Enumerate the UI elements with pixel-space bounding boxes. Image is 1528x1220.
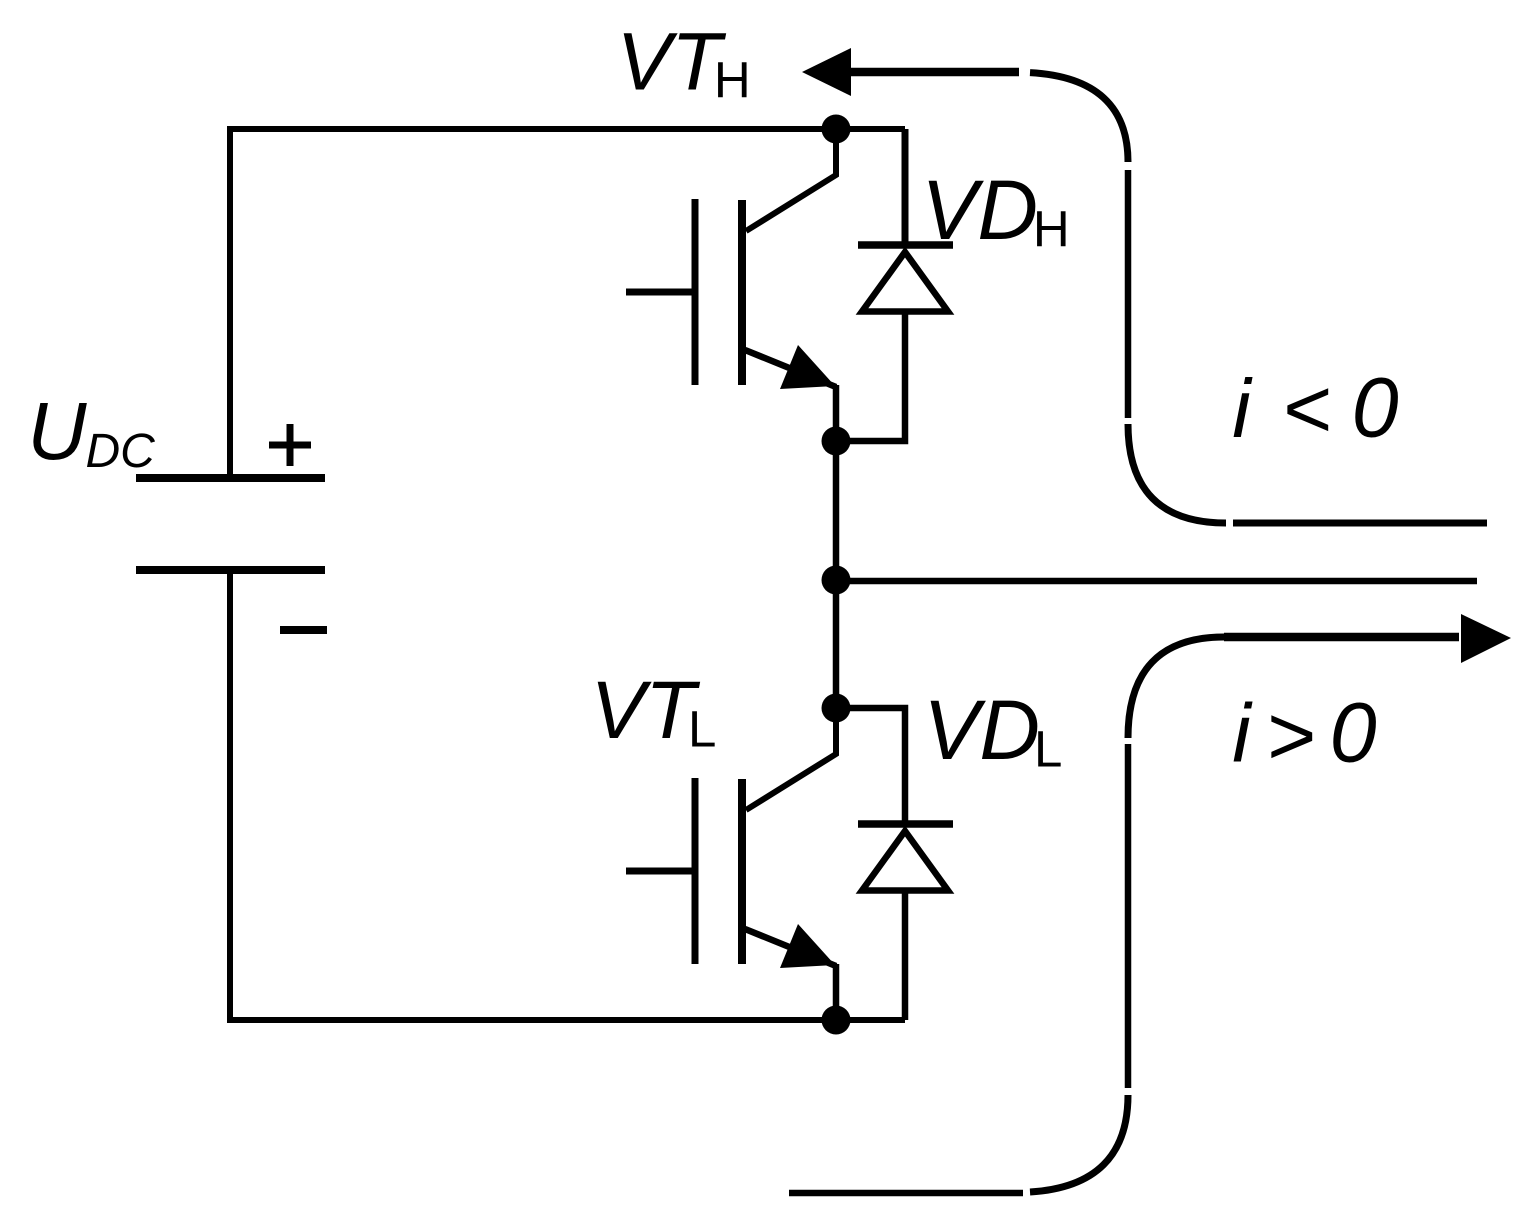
node C (output node) (822, 566, 851, 595)
svg-text:i: i (1232, 362, 1253, 455)
svg-text:>: > (1266, 689, 1315, 783)
svg-text:i: i (1232, 687, 1253, 780)
capacitor U_DC bottom plate (-) (136, 566, 325, 574)
current path i<0: bottom rounded corner (1128, 424, 1226, 523)
svg-text:0: 0 (1352, 361, 1399, 455)
node D (VT_L collector / VD_L cathode) (822, 694, 851, 723)
transistor VT_H channel bar (738, 200, 746, 385)
current path i<0: top rounded corner (1030, 73, 1128, 162)
svg-text:L: L (1034, 721, 1062, 778)
transistor VT_L channel bar (738, 779, 746, 964)
current path i<0: shaft (849, 68, 1019, 77)
wire: DC- rail from battery bottom plate down and right along the bottom (230, 570, 905, 1020)
wire: midpoint vertical between node B and node D (833, 441, 840, 708)
transistor VT_H collector lead (746, 132, 836, 231)
diode VD_L cathode bar (858, 820, 953, 828)
current path i>0: bottom rounded corner (1030, 1095, 1128, 1192)
current path i>0: top rounded corner (1128, 637, 1224, 738)
wire: VD_H cathode lead down from top rail (902, 129, 909, 245)
transistor VT_L emitter lead (745, 929, 836, 1020)
minus sign (280, 626, 327, 634)
transistor VT_H gate bar (692, 199, 699, 385)
diode VD_L branch from node D (836, 708, 905, 824)
diode VD_H bottom lead to node B (836, 314, 905, 441)
wire: DC+ rail from battery top plate up and right across the top (230, 129, 905, 477)
transistor VT_H emitter arrowhead (780, 345, 835, 389)
diode VD_H anti-parallel: cathode bar (858, 241, 953, 249)
current path i>0: shaft to arrowhead (1224, 633, 1459, 642)
svg-text:VD: VD (921, 163, 1038, 257)
svg-text:H: H (714, 52, 751, 109)
wire: VD_L anode lead up from bottom rail (902, 893, 909, 1020)
svg-text:H: H (1033, 201, 1070, 258)
diode VD_H triangle (anode, pointing up) (862, 252, 948, 312)
svg-text:<: < (1282, 362, 1331, 456)
current path i<0: vertical segment (1125, 170, 1132, 418)
current path i<0: exit line right (1233, 520, 1487, 527)
svg-text:VT: VT (617, 17, 727, 108)
transistor VT_H gate lead (626, 289, 692, 296)
current path i>0: bottom entry line (789, 1190, 1023, 1197)
transistor VT_L emitter arrowhead (780, 924, 835, 968)
current path i<0: arrowhead pointing left at VT_H (802, 48, 851, 96)
node B (VT_H emitter / VD_H anode) (822, 427, 851, 456)
transistor VT_H emitter lead (745, 350, 836, 441)
plus sign (269, 424, 311, 466)
capacitor U_DC top plate (+) (136, 474, 325, 482)
svg-text:VD: VD (923, 683, 1040, 777)
node E (bottom rail / VT_L emitter) (822, 1006, 851, 1035)
svg-text:VT: VT (591, 665, 701, 756)
current path i>0: vertical segment (1125, 744, 1132, 1088)
node A (top rail / VT_H collector) (822, 115, 851, 144)
diode VD_L triangle (anode, pointing up) (862, 831, 948, 891)
svg-text:L: L (688, 701, 716, 758)
svg-text:0: 0 (1330, 686, 1377, 780)
transistor VT_L gate lead (626, 868, 692, 875)
svg-text:DC: DC (86, 425, 156, 478)
current path i>0: arrowhead pointing right (1461, 614, 1511, 663)
wire: output line to the right (836, 578, 1477, 585)
svg-text:U: U (27, 386, 87, 477)
transistor VT_L collector lead (746, 711, 836, 810)
transistor VT_L gate bar (692, 778, 699, 964)
